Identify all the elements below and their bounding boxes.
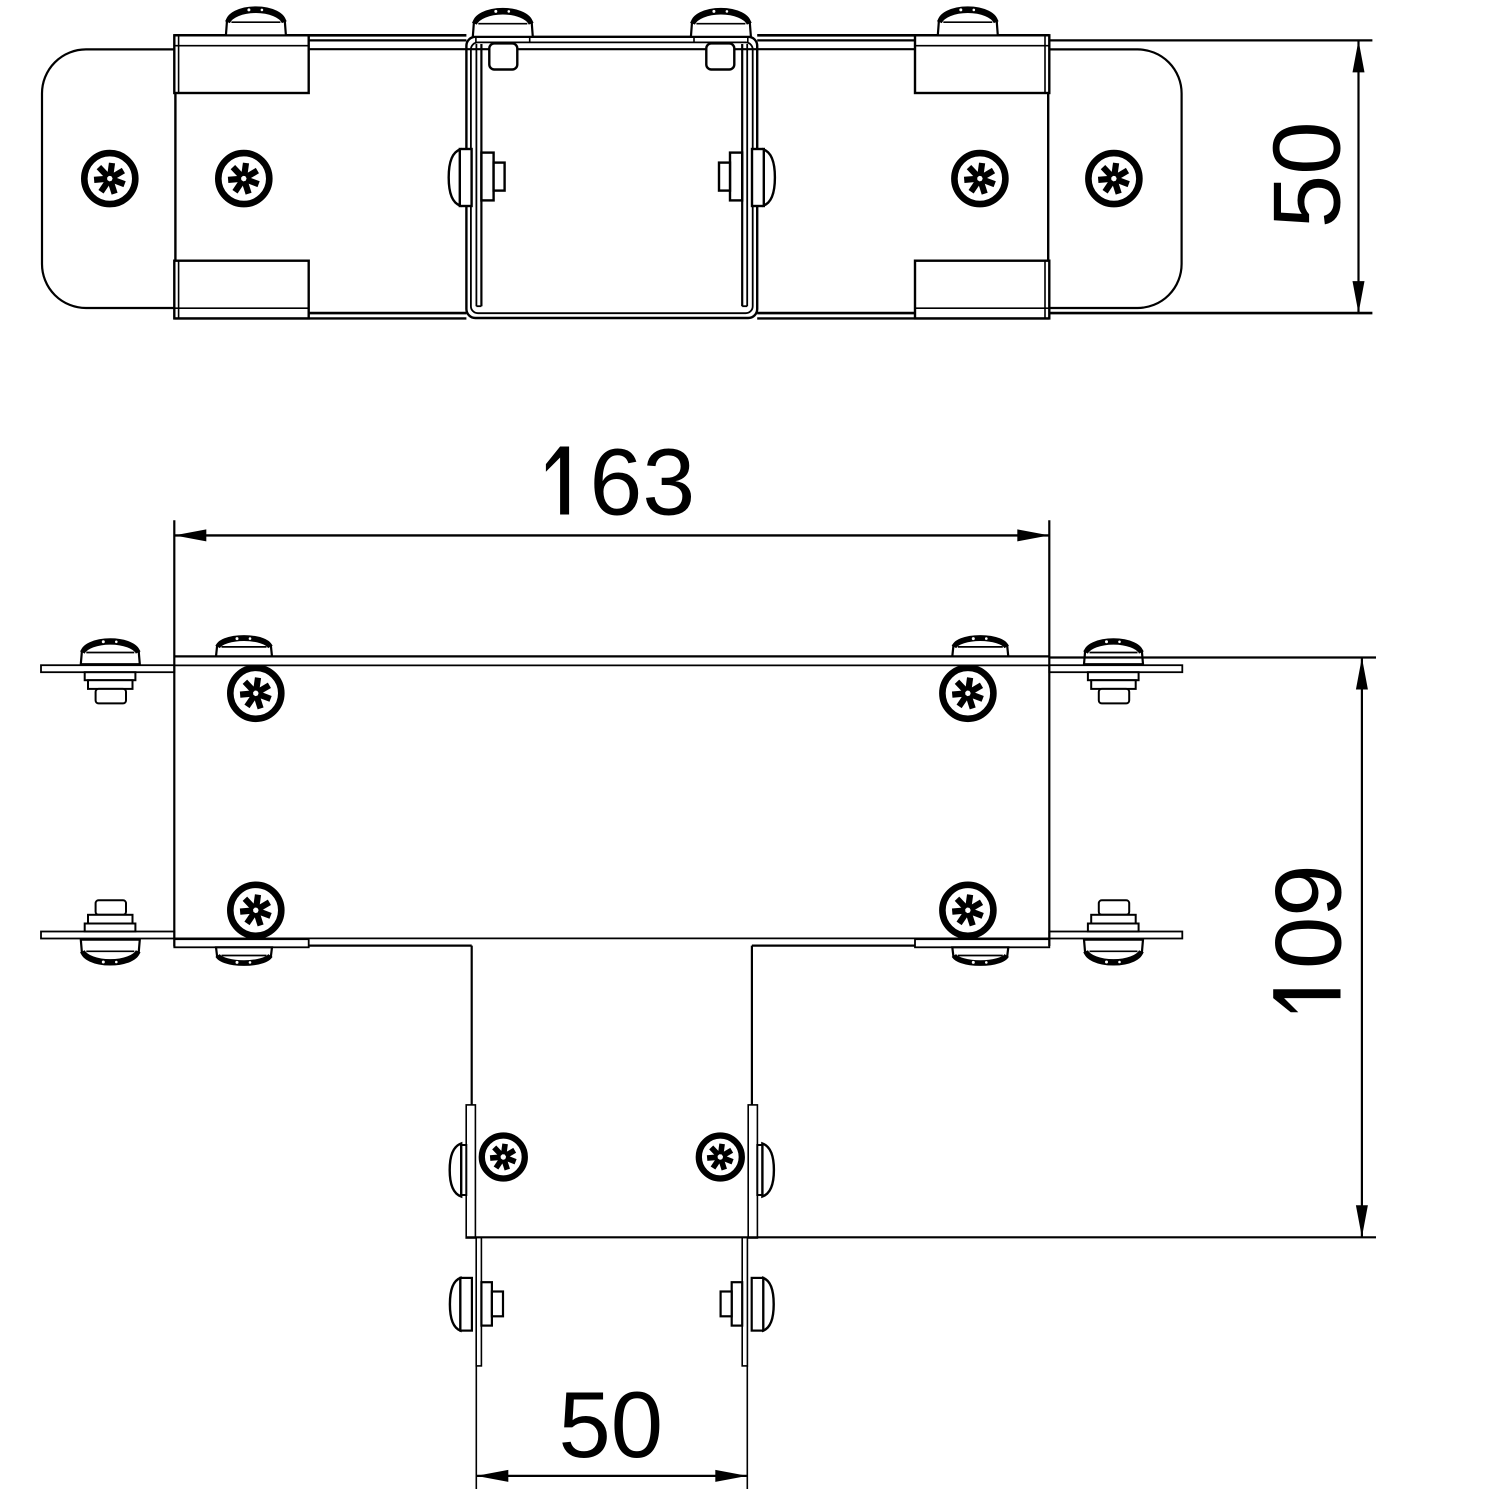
svg-text:50: 50: [559, 1372, 664, 1477]
svg-text:09: 09: [1256, 864, 1361, 969]
svg-text:50: 50: [1254, 121, 1361, 228]
svg-text:63: 63: [590, 430, 696, 536]
